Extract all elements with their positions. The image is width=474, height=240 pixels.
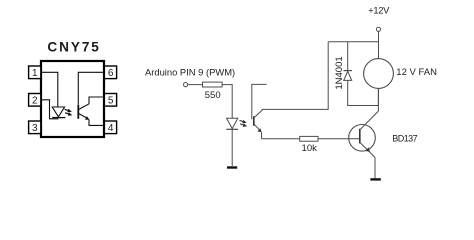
wire Q1 emitter to ground bbox=[374, 157, 376, 178]
pin 5 bbox=[104, 94, 116, 107]
svg-text:+12V: +12V bbox=[368, 6, 390, 16]
pin 6 bbox=[104, 66, 116, 79]
wire R1 to LED anode bbox=[222, 85, 232, 119]
LED inside CNY75 bbox=[52, 107, 65, 118]
ground (LED side) bbox=[227, 166, 237, 168]
pin 2 bbox=[29, 94, 41, 107]
wire pin6 to phototransistor base bbox=[78, 72, 103, 105]
svg-text:4: 4 bbox=[108, 123, 114, 134]
pin 3 bbox=[29, 121, 41, 134]
svg-text:Arduino PIN 9 (PWM): Arduino PIN 9 (PWM) bbox=[145, 67, 235, 78]
base stub of phototransistor (pin 6 open) bbox=[252, 84, 267, 119]
light arrows inside CNY75 bbox=[65, 109, 73, 116]
LED of optocoupler bbox=[226, 118, 238, 129]
wire Q1 collector to fan bbox=[377, 88, 379, 111]
phototransistor of optocoupler bbox=[254, 109, 262, 138]
light arrows to phototransistor bbox=[240, 120, 248, 127]
diode D1 1N4001 bbox=[344, 42, 379, 106]
top rail wire bbox=[328, 41, 378, 43]
ground (Q1 emitter) bbox=[370, 178, 380, 180]
resistor R1 550 bbox=[203, 82, 223, 87]
svg-text:10k: 10k bbox=[302, 143, 318, 154]
wire LED cathode to ground bbox=[231, 129, 233, 166]
pin 4 bbox=[104, 121, 116, 134]
pin 1 bbox=[29, 66, 41, 79]
svg-text:3: 3 bbox=[32, 123, 38, 134]
wire phototransistor emitter to R2 bbox=[262, 138, 300, 140]
svg-text:6: 6 bbox=[108, 68, 114, 79]
svg-text:CNY75: CNY75 bbox=[47, 40, 100, 55]
svg-text:550: 550 bbox=[205, 90, 221, 101]
+12V terminal node bbox=[376, 27, 380, 31]
svg-text:5: 5 bbox=[108, 95, 114, 106]
wire +12V to fan bbox=[378, 31, 380, 58]
phototransistor inside CNY75 bbox=[78, 97, 103, 125]
wire terminal to R1 bbox=[188, 84, 203, 86]
fan M1 bbox=[364, 59, 394, 89]
svg-text:12 V FAN: 12 V FAN bbox=[396, 67, 437, 78]
optocoupler U1 package body bbox=[41, 61, 104, 137]
wire R2 to Q1 base bbox=[318, 138, 359, 140]
svg-text:1: 1 bbox=[32, 68, 38, 79]
transistor Q1 BD137 bbox=[349, 111, 379, 157]
wire fan bottom junction bbox=[377, 88, 379, 105]
wire pin2 to internal LED cathode bbox=[42, 100, 58, 119]
svg-text:2: 2 bbox=[32, 95, 38, 106]
wire phototransistor collector to +12V rail bbox=[262, 42, 328, 110]
resistor R2 10k bbox=[300, 136, 318, 141]
svg-text:1N4001: 1N4001 bbox=[334, 56, 345, 89]
svg-text:BD137: BD137 bbox=[392, 134, 417, 144]
wire pin1 to internal LED anode bbox=[42, 72, 58, 107]
input terminal node bbox=[184, 83, 188, 87]
